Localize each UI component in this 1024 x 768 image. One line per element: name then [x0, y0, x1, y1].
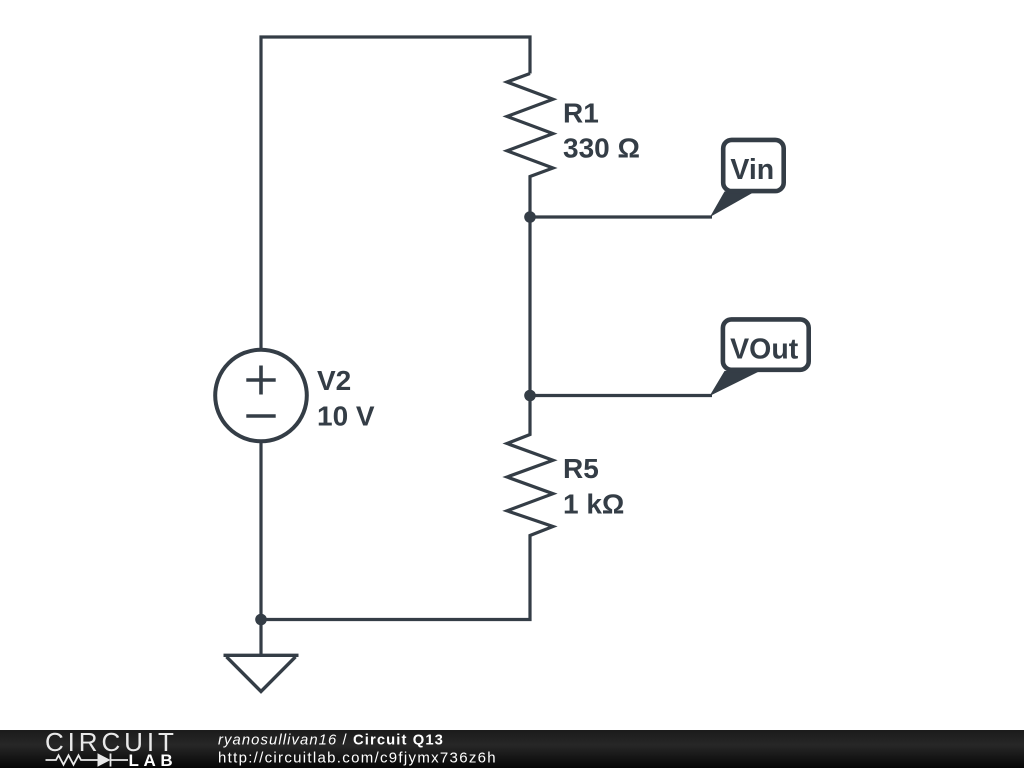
svg-text:R5: R5 — [563, 453, 599, 484]
svg-text:R1: R1 — [563, 98, 599, 129]
svg-text:V2: V2 — [317, 365, 351, 396]
svg-text:LAB: LAB — [129, 751, 178, 768]
svg-text:1 kΩ: 1 kΩ — [563, 489, 624, 520]
svg-text:Vin: Vin — [730, 154, 774, 186]
svg-text:10 V: 10 V — [317, 401, 375, 432]
svg-text:VOut: VOut — [730, 333, 799, 365]
svg-text:ryanosullivan16 / Circuit Q13: ryanosullivan16 / Circuit Q13 — [218, 732, 444, 748]
svg-text:330 Ω: 330 Ω — [563, 133, 640, 164]
svg-text:http://circuitlab.com/c9fjymx7: http://circuitlab.com/c9fjymx736z6h — [218, 749, 497, 766]
